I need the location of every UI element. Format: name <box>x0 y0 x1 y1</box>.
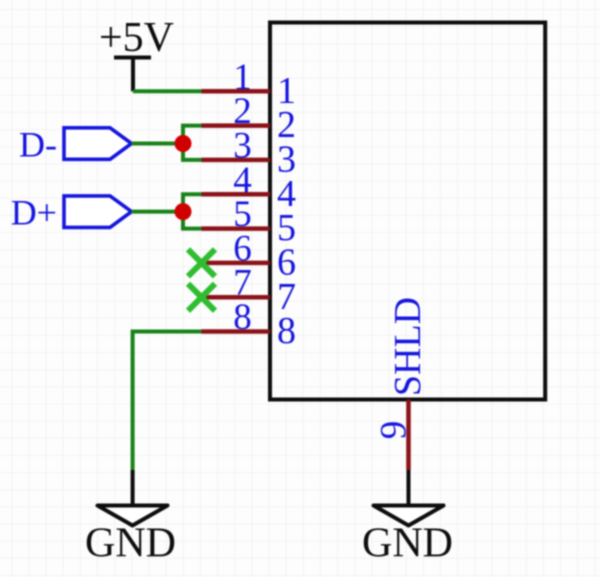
svg-text:+5V: +5V <box>99 15 174 61</box>
pin 8 <box>202 329 271 334</box>
junction D- <box>175 135 192 152</box>
ground symbol GND2 <box>374 470 444 526</box>
svg-text:8: 8 <box>277 310 296 352</box>
svg-text:GND: GND <box>362 521 453 567</box>
wire D- <box>132 142 184 146</box>
pin 6 <box>202 261 271 266</box>
wire pin8 to GND <box>133 332 202 471</box>
svg-text:9: 9 <box>374 421 415 440</box>
svg-text:SHLD: SHLD <box>387 297 429 396</box>
pin 1 <box>202 89 271 94</box>
pin 5 <box>202 226 271 231</box>
connector body J1 <box>270 23 545 400</box>
no-connect pin 6 <box>188 249 215 276</box>
svg-text:8: 8 <box>233 297 252 338</box>
wire D+ <box>132 210 184 214</box>
pin 2 <box>202 123 271 128</box>
wire pins 2-3 <box>183 126 202 160</box>
pin 3 <box>202 158 271 163</box>
port D- <box>64 128 132 160</box>
ground symbol GND1 <box>98 470 168 526</box>
power symbol +5V <box>114 58 151 92</box>
pin 7 <box>202 295 271 300</box>
svg-text:D+: D+ <box>11 193 57 233</box>
port D+ <box>64 196 132 228</box>
wire pin1 <box>133 89 202 93</box>
pin 9 <box>406 400 411 471</box>
svg-text:D-: D- <box>19 124 57 164</box>
pin 4 <box>202 192 271 197</box>
no-connect pin 7 <box>188 284 215 311</box>
junction D+ <box>175 203 192 220</box>
svg-text:GND: GND <box>85 521 176 567</box>
wire pins 4-5 <box>183 194 202 228</box>
